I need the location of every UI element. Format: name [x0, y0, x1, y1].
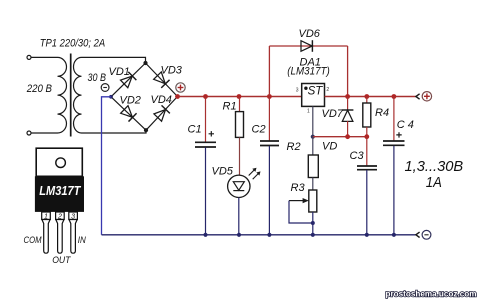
pin box 1	[42, 212, 51, 220]
diode VD2	[120, 105, 136, 121]
wire: VD5 lower	[238, 198, 240, 235]
output terminal plus circle	[422, 92, 431, 101]
wire: R4 lower	[366, 127, 368, 137]
wire: R1 upper	[239, 97, 241, 112]
svg-text:OUT: OUT	[52, 255, 72, 265]
svg-text:220 В: 220 В	[26, 83, 52, 95]
wire: R3 lower	[312, 212, 314, 235]
wire: ADJ to R2	[312, 137, 314, 155]
pin box 2	[56, 212, 65, 220]
svg-text:C3: C3	[350, 150, 365, 162]
node: R1 top junction	[237, 94, 242, 99]
svg-text:1: 1	[307, 109, 310, 115]
svg-text:VD4: VD4	[151, 94, 172, 106]
wire: bridge arm top-right	[146, 63, 178, 97]
wire: bridge arm left-bottom	[111, 97, 146, 130]
svg-text:TP1 220/30; 2A: TP1 220/30; 2A	[40, 37, 106, 49]
svg-text:VD1: VD1	[109, 66, 130, 78]
node: C2 VD6 junction	[267, 94, 272, 99]
transformer TP1 secondary winding	[74, 57, 82, 133]
resistor R1	[236, 112, 244, 138]
transformer TP1 primary winding	[58, 57, 67, 133]
wire: VD6 right riser	[347, 46, 349, 97]
node: VD5 bottom junction	[237, 233, 241, 237]
node: C2 bottom junction	[267, 233, 271, 237]
capacitor C2	[260, 141, 279, 146]
wire: bridge arm bottom-right	[146, 97, 178, 131]
wire: plus rail bridge to regulator	[178, 96, 302, 98]
transformer core	[70, 54, 72, 137]
wire: C4 lower	[393, 146, 395, 235]
polarity marker: minus	[101, 84, 109, 92]
svg-text:VD6: VD6	[299, 28, 321, 40]
node: R3 bottom junction	[311, 233, 315, 237]
wire: pin1 down	[312, 106, 314, 136]
svg-text:1А: 1А	[426, 174, 442, 191]
R3 wiper arrow	[289, 198, 309, 203]
node: bridge plus	[175, 94, 180, 99]
diode VD1	[120, 72, 136, 88]
wire: R4 upper	[366, 97, 368, 104]
node: R4 top junction	[364, 94, 369, 99]
pin leg 2	[56, 220, 64, 254]
regulator symbol *ST	[304, 85, 323, 97]
svg-text:VD2: VD2	[120, 95, 141, 107]
regulator DA1 box	[302, 84, 325, 107]
node: VD6 output junction	[345, 94, 350, 99]
LM317T package body	[35, 176, 84, 212]
output terminal minus circle	[422, 230, 431, 239]
svg-text:R2: R2	[287, 141, 301, 153]
wire: secondary top to bridge top	[82, 57, 146, 63]
svg-text:C2: C2	[252, 124, 266, 136]
node: C1 top junction	[203, 94, 208, 99]
node: bridge AC bottom	[144, 128, 148, 132]
wire: C4 upper	[393, 97, 395, 141]
capacitor C3	[357, 166, 377, 170]
svg-text:R4: R4	[375, 107, 389, 119]
node: wiper junction	[311, 221, 315, 225]
wire: C3 upper	[366, 137, 368, 166]
svg-text:IN: IN	[78, 235, 86, 245]
wire: VD6 top span	[269, 45, 347, 47]
resistor R4	[363, 103, 371, 127]
svg-text:3: 3	[296, 88, 299, 94]
diode VD4	[154, 105, 170, 121]
diode VD3	[153, 72, 169, 88]
svg-text:C 4: C 4	[397, 119, 414, 131]
node: bridge AC top	[143, 61, 147, 65]
capacitor C4	[383, 132, 405, 145]
node: C3 bottom junction	[365, 233, 369, 237]
wire: R2 to R3	[312, 178, 314, 191]
node: C1 bottom junction	[203, 233, 207, 237]
output terminal minus chevron	[416, 232, 420, 237]
svg-text:(LM317T): (LM317T)	[287, 66, 330, 78]
node: C4 bottom junction	[392, 233, 396, 237]
wire: secondary bottom to bridge bottom	[82, 130, 147, 133]
wire: C1 upper	[205, 97, 207, 143]
svg-text:VD: VD	[322, 141, 337, 153]
pin leg 1	[42, 220, 50, 254]
wire: R1 to VD5	[239, 137, 241, 175]
wire: bridge arm left-top	[111, 63, 146, 97]
wire: bottom minus rail	[102, 234, 417, 236]
wire: bridge minus to bottom rail (blue)	[102, 97, 112, 235]
wire: C3 lower	[366, 170, 368, 235]
node: bridge minus	[109, 95, 113, 99]
svg-text:R1: R1	[223, 101, 237, 113]
svg-text:VD5: VD5	[212, 166, 234, 178]
wire: R3 wiper loop	[289, 201, 313, 223]
output terminal plus chevron	[416, 94, 420, 99]
node: VD7 ADJ junction	[345, 134, 350, 139]
node: C4 top junction	[392, 94, 397, 99]
svg-text:30 В: 30 В	[88, 72, 107, 84]
LM317T package tab	[36, 148, 82, 176]
LM317T package hole	[56, 158, 66, 168]
svg-text:VD3: VD3	[161, 65, 183, 77]
capacitor C1	[195, 131, 216, 147]
svg-text:ST: ST	[308, 85, 324, 97]
LED VD5	[228, 168, 261, 198]
svg-text:R3: R3	[291, 182, 306, 194]
svg-text:prostoshema.ucoz.com: prostoshema.ucoz.com	[386, 289, 477, 299]
svg-text:1,3...30В: 1,3...30В	[405, 158, 464, 175]
wire: C2 upper	[268, 97, 270, 141]
resistor R3 (potentiometer)	[309, 190, 317, 212]
svg-text:2: 2	[326, 87, 329, 93]
resistor R2	[308, 155, 318, 178]
terminal: primary bottom	[27, 131, 31, 135]
node: R4 ADJ junction	[364, 134, 369, 139]
wire: VD7 upper	[347, 97, 349, 111]
wire: regulator output rail	[325, 96, 417, 98]
svg-text:COM: COM	[24, 235, 42, 245]
wire: VD7 lower	[347, 121, 349, 137]
wire: C1 lower	[205, 148, 207, 235]
wire: C2 lower	[268, 146, 270, 235]
svg-text:VD7: VD7	[322, 108, 344, 120]
wire: VD6 left riser	[268, 46, 270, 97]
terminal: primary top	[27, 55, 31, 59]
pin box 3	[69, 212, 78, 220]
polarity marker: plus	[176, 83, 185, 92]
diode VD7	[342, 110, 354, 121]
svg-text:LM317T: LM317T	[39, 184, 81, 198]
pin leg 3	[69, 220, 77, 254]
wire: ADJ line	[313, 136, 367, 138]
wire: primary top lead	[31, 56, 58, 58]
svg-text:C1: C1	[188, 124, 202, 136]
wire: primary bottom lead	[31, 132, 58, 134]
diode VD6	[301, 40, 312, 52]
node: ADJ junction	[311, 135, 315, 139]
